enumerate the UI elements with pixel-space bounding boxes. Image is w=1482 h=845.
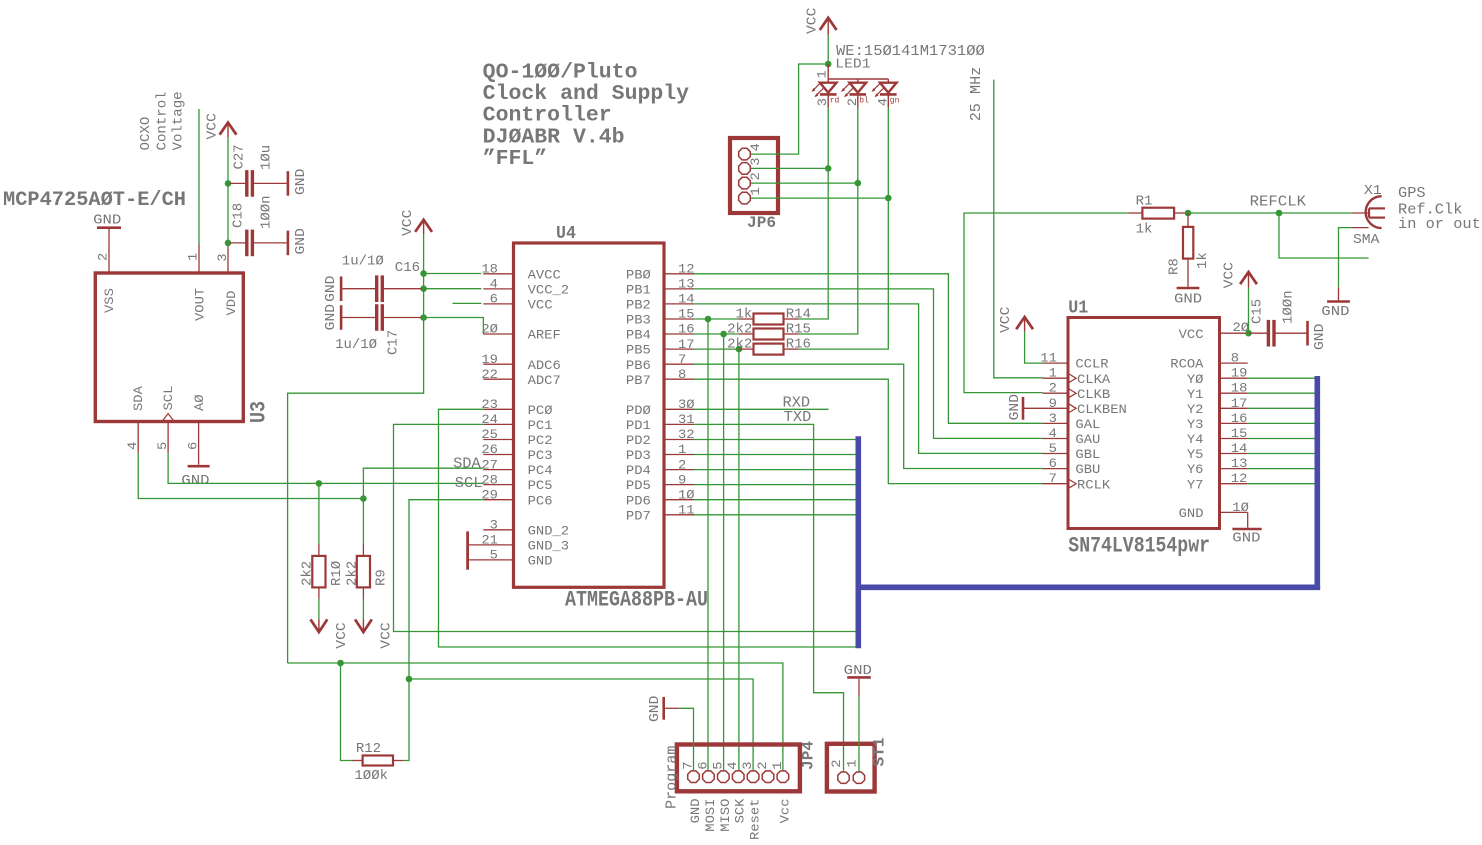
svg-text:YØ: YØ <box>1187 372 1204 387</box>
svg-text:R8: R8 <box>1167 258 1183 275</box>
ground GND at C27 <box>287 171 290 196</box>
svg-text:VOUT: VOUT <box>193 288 208 321</box>
svg-text:3: 3 <box>215 253 230 261</box>
svg-text:PBØ: PBØ <box>626 267 651 282</box>
svg-text:1k: 1k <box>1195 252 1211 269</box>
svg-text:28: 28 <box>481 472 498 487</box>
U4 pin 23 PC0 <box>483 408 513 410</box>
svg-text:VCC: VCC <box>1179 327 1204 342</box>
svg-text:26: 26 <box>481 442 498 457</box>
svg-text:PD5: PD5 <box>626 478 651 493</box>
power VCC above U3 <box>227 123 229 138</box>
U4 pin 24 PC1 <box>483 423 513 425</box>
svg-text:22: 22 <box>481 367 498 382</box>
junction VCC C17 <box>420 314 427 321</box>
U4 pin 10 PD6 <box>664 499 694 501</box>
junction LED blue JP6 pin2 <box>855 180 862 187</box>
svg-text:PC2: PC2 <box>528 433 553 448</box>
wire VCC to U4 AVCC <box>424 273 482 275</box>
svg-text:5: 5 <box>710 762 725 770</box>
wire U1 Y3 to bus <box>1248 422 1315 424</box>
connector JP4 outline <box>677 745 800 792</box>
wire REFCLK down to SMA shield row <box>1279 213 1369 258</box>
JP4 pin 6 pad <box>703 771 715 783</box>
svg-text:”FFL”: ”FFL” <box>483 148 548 171</box>
wire U1 Y4 to bus <box>1248 438 1315 440</box>
JP4 pin 5 pad <box>718 771 730 783</box>
LED arrows gn <box>873 83 881 91</box>
svg-text:8: 8 <box>1231 351 1239 366</box>
svg-text:X1: X1 <box>1364 183 1382 199</box>
svg-text:1ØØn: 1ØØn <box>1281 290 1297 324</box>
svg-text:ADC7: ADC7 <box>528 373 561 388</box>
wire SDA jog to U4 PC4 <box>363 468 483 498</box>
resistor R12 <box>363 756 393 766</box>
svg-text:3: 3 <box>748 158 763 166</box>
U4 pin 18 AVCC <box>483 273 513 275</box>
svg-text:1: 1 <box>678 442 686 457</box>
svg-text:2: 2 <box>96 253 111 261</box>
U1 pin 1 CLKA <box>1043 377 1069 379</box>
U4 pin 22 ADC7 <box>483 378 513 380</box>
LED diode pin 3 rd <box>827 79 829 83</box>
svg-text:11: 11 <box>678 503 695 518</box>
U4 pin 29 PC6 <box>483 499 513 501</box>
U4 pin 32 PD2 <box>664 439 694 441</box>
svg-text:6: 6 <box>695 762 710 770</box>
connector ST1 outline <box>827 744 875 792</box>
svg-text:14: 14 <box>1231 441 1248 456</box>
svg-text:R12: R12 <box>356 741 381 757</box>
ground GND at JP4 pin7 <box>662 697 665 720</box>
svg-text:15: 15 <box>1231 426 1248 441</box>
svg-text:1Øu: 1Øu <box>259 145 275 170</box>
wire JP4 GND pin <box>679 708 694 770</box>
ST1 pin 1 pad <box>853 772 864 783</box>
svg-text:1k: 1k <box>1136 222 1153 238</box>
svg-text:R1Ø: R1Ø <box>329 561 345 586</box>
junction LED red JP6 pin3 <box>825 165 832 172</box>
svg-text:1: 1 <box>748 187 763 195</box>
svg-text:GND: GND <box>1232 531 1260 547</box>
LED diode pin 2 bl <box>857 79 859 83</box>
wire JP6 pin2 to LED blue <box>751 182 858 184</box>
wire RXD from U4 PD0 <box>694 408 829 410</box>
svg-text:9: 9 <box>1049 396 1057 411</box>
svg-text:2: 2 <box>678 457 686 472</box>
svg-text:1Ø: 1Ø <box>678 487 695 502</box>
svg-text:SN74LV8154pwr: SN74LV8154pwr <box>1068 534 1210 559</box>
junction PB4 column <box>720 331 727 338</box>
svg-text:CCLR: CCLR <box>1075 357 1108 372</box>
svg-text:R1: R1 <box>1136 193 1153 209</box>
power VCC below R9 <box>362 619 364 632</box>
resistor R8 <box>1183 227 1193 259</box>
svg-text:GND: GND <box>688 798 703 823</box>
svg-text:16: 16 <box>1231 411 1248 426</box>
wire R15 to LED1 blue cathode <box>798 108 857 335</box>
wire PC1 to bus <box>394 424 856 631</box>
svg-text:1: 1 <box>815 70 830 78</box>
svg-text:VCC: VCC <box>400 210 416 236</box>
svg-text:GBU: GBU <box>1075 462 1100 477</box>
svg-text:gn: gn <box>890 97 900 106</box>
junction PB5 column <box>736 346 743 353</box>
svg-text:PB7: PB7 <box>626 373 651 388</box>
wire R14 column to JP4 <box>707 319 709 770</box>
wire VCC to U3 VDD <box>227 137 229 246</box>
IC U4 ATMEGA88PB outline <box>514 243 665 587</box>
svg-text:4: 4 <box>725 761 740 769</box>
ground GND at C17 <box>340 305 343 330</box>
svg-text:bl: bl <box>859 97 869 106</box>
clock mark on U3 SCL <box>162 414 174 422</box>
svg-text:4: 4 <box>1049 426 1057 441</box>
svg-text:1ØØn: 1ØØn <box>259 195 275 229</box>
resistor R16 <box>754 344 784 355</box>
svg-text:25: 25 <box>481 427 498 442</box>
ground GND below X1 <box>1338 287 1340 300</box>
svg-text:SCL: SCL <box>455 475 483 492</box>
svg-text:DJØABR V.4b: DJØABR V.4b <box>483 126 625 149</box>
svg-text:SDA: SDA <box>131 386 146 411</box>
U4 pin 8 PB7 <box>664 378 694 380</box>
svg-text:VCC: VCC <box>1222 262 1238 288</box>
wire SDA net U3 <box>138 453 363 498</box>
wire VCC to U4 VCC_2 <box>424 288 482 290</box>
svg-text:2Ø: 2Ø <box>481 322 498 337</box>
wire PB0 to U1 GAL <box>694 274 1043 424</box>
svg-text:GAU: GAU <box>1075 432 1100 447</box>
junction R1 R8 <box>1185 210 1192 217</box>
svg-text:5: 5 <box>1049 441 1057 456</box>
svg-text:SCK: SCK <box>733 798 748 823</box>
wire U4 PB4 to R15 <box>694 333 739 335</box>
svg-text:GND: GND <box>1321 304 1349 320</box>
wire R14 to LED1 red cathode <box>798 108 828 320</box>
wire R16 to LED1 green cathode <box>798 108 888 350</box>
wire VCC rail to JP4 Vcc <box>288 663 783 770</box>
svg-text:GND: GND <box>293 228 309 254</box>
wire U4 PB5 to R16 <box>694 348 739 350</box>
wire VOUT net <box>198 109 200 244</box>
svg-text:3: 3 <box>1049 411 1057 426</box>
svg-text:GND: GND <box>1174 292 1202 308</box>
JP6 pin 3 pad <box>739 163 751 175</box>
wire U1 Y1 to bus <box>1248 392 1315 394</box>
U4 pin 13 PB1 <box>664 288 694 290</box>
svg-text:OCXO: OCXO <box>138 117 154 151</box>
svg-text:24: 24 <box>481 412 498 427</box>
U3 pin 5 SCL <box>167 422 169 454</box>
svg-text:VCC: VCC <box>805 8 821 34</box>
svg-text:GBL: GBL <box>1075 447 1100 462</box>
svg-text:16: 16 <box>678 322 695 337</box>
bus horizontal bottom <box>856 584 1321 590</box>
svg-text:8: 8 <box>678 367 686 382</box>
svg-text:PB2: PB2 <box>626 298 651 313</box>
svg-text:VCC_2: VCC_2 <box>528 283 570 298</box>
ground GND at U3 A0 <box>188 465 210 468</box>
wire C17 to U4 AREF <box>424 318 484 335</box>
svg-text:MOSI: MOSI <box>703 799 718 832</box>
junction LED green JP6 pin1 <box>885 195 892 202</box>
wire PC0 to bus <box>439 409 856 647</box>
svg-text:4: 4 <box>748 143 763 151</box>
wire R9 to VCC arrow <box>362 599 364 619</box>
svg-text:19: 19 <box>481 352 498 367</box>
wire U4 PD2 to bus <box>694 439 856 441</box>
svg-text:C27: C27 <box>232 144 248 169</box>
U1 pin 9 CLKBEN <box>1043 407 1069 409</box>
svg-text:CLKA: CLKA <box>1077 372 1110 387</box>
wire JP6 pin3 to LED red <box>751 167 828 169</box>
U4 pin 7 PB6 <box>664 363 694 365</box>
wire R10 to VCC arrow <box>318 599 320 619</box>
ST1 pin 2 pad <box>838 772 849 783</box>
svg-text:4: 4 <box>875 98 890 106</box>
ground GND at U3 pin2 <box>97 226 121 229</box>
JP4 pin 2 pad <box>762 771 774 783</box>
svg-text:VCC: VCC <box>379 622 395 648</box>
svg-text:PC6: PC6 <box>528 493 553 508</box>
wire VCC column and rail <box>288 234 424 663</box>
svg-text:1u/1Ø: 1u/1Ø <box>335 337 377 353</box>
U1 pin 19 Y0 <box>1220 377 1248 379</box>
wire U4 PD6 to bus <box>694 499 856 501</box>
connector JP6 outline <box>730 138 778 213</box>
svg-text:2: 2 <box>748 172 763 180</box>
svg-text:3: 3 <box>490 518 498 533</box>
U4 pin 28 PC5 <box>483 484 513 486</box>
svg-text:GND: GND <box>647 696 663 722</box>
svg-text:PB3: PB3 <box>626 313 651 328</box>
svg-text:RCLK: RCLK <box>1077 477 1110 492</box>
svg-text:QO-1ØØ/Pluto: QO-1ØØ/Pluto <box>483 61 638 84</box>
wire TXD from U4 PD1 to ST1 <box>694 424 844 771</box>
junction C18 node <box>225 240 232 247</box>
svg-text:REFCLK: REFCLK <box>1250 193 1306 210</box>
U1 pin 17 Y2 <box>1220 407 1248 409</box>
resistor R9 <box>357 556 370 588</box>
svg-text:Y3: Y3 <box>1187 417 1204 432</box>
svg-text:C17: C17 <box>386 330 402 355</box>
svg-text:PD3: PD3 <box>626 448 651 463</box>
svg-text:PB6: PB6 <box>626 358 651 373</box>
power VCC at U1 CCLR <box>1024 317 1026 332</box>
svg-text:AREF: AREF <box>528 328 561 343</box>
junction SDA R9 <box>360 495 367 502</box>
svg-text:PB1: PB1 <box>626 283 651 298</box>
IC U1 SN74LV8154 outline <box>1068 318 1220 529</box>
svg-text:VCC: VCC <box>528 298 553 313</box>
svg-text:PCØ: PCØ <box>528 403 553 418</box>
svg-text:SMA: SMA <box>1353 232 1380 248</box>
junction C27 node <box>225 180 232 187</box>
svg-text:9: 9 <box>678 472 686 487</box>
svg-text:5: 5 <box>155 442 170 450</box>
capacitor C16 <box>375 275 378 302</box>
svg-text:18: 18 <box>481 262 498 277</box>
U1 pin 15 Y4 <box>1220 438 1248 440</box>
JP6 pin 1 pad <box>739 192 751 204</box>
LED arrows bl <box>842 83 850 91</box>
svg-text:GND: GND <box>1312 324 1328 350</box>
svg-text:6: 6 <box>186 442 201 450</box>
U4 pin 1 PD3 <box>664 454 694 456</box>
U4 pin 14 PB2 <box>664 303 694 305</box>
svg-text:AVCC: AVCC <box>528 267 561 282</box>
U3 pin 2 VSS <box>108 229 110 273</box>
wire GND to ST1 pin1 <box>858 697 860 772</box>
U4 pin 30 PD0 <box>664 408 694 410</box>
svg-text:GND: GND <box>323 276 339 302</box>
svg-text:GND_3: GND_3 <box>528 539 570 554</box>
ground GND below R8 <box>1177 287 1200 290</box>
U1 pin 4 GAU <box>1043 438 1069 440</box>
U1 pin 16 Y3 <box>1220 422 1248 424</box>
LED arrows rd <box>813 83 821 91</box>
wire PB7 to U1 RCLK <box>694 379 1043 483</box>
svg-text:R15: R15 <box>786 322 811 338</box>
U1 pin 8 RCOA <box>1220 362 1248 364</box>
svg-text:4: 4 <box>125 442 140 450</box>
svg-text:Y7: Y7 <box>1187 477 1204 492</box>
wire REFCLK node <box>1188 212 1353 214</box>
svg-text:ATMEGA88PB-AU: ATMEGA88PB-AU <box>565 588 708 613</box>
svg-text:Y6: Y6 <box>1187 462 1204 477</box>
svg-text:13: 13 <box>678 277 695 292</box>
junction VCC C16 <box>420 270 427 277</box>
U4 pin 12 PB0 <box>664 273 694 275</box>
IC U3 MCP4725 outline <box>95 273 243 422</box>
U1 pin 2 CLKB <box>1043 392 1069 394</box>
ground GND at U1 pin10 <box>1247 512 1249 527</box>
wire R15 column to JP4 <box>723 334 725 770</box>
svg-text:PD7: PD7 <box>626 508 651 523</box>
wire JP6 pin1 to LED green <box>751 197 889 199</box>
U1 pin 6 GBU <box>1043 468 1069 470</box>
svg-text:GND: GND <box>323 304 339 330</box>
svg-text:7: 7 <box>1049 471 1057 486</box>
svg-text:VCC: VCC <box>205 113 221 139</box>
svg-text:GND: GND <box>528 554 553 569</box>
svg-text:VDD: VDD <box>224 290 239 315</box>
U4 pin 31 PD1 <box>664 423 694 425</box>
wire reset rail to JP4 pin3 <box>409 679 753 770</box>
U3 pin 4 SDA <box>137 422 139 454</box>
svg-text:Y1: Y1 <box>1187 387 1204 402</box>
svg-text:23: 23 <box>481 397 498 412</box>
svg-text:15: 15 <box>678 307 695 322</box>
svg-text:1: 1 <box>844 759 859 767</box>
svg-text:PC1: PC1 <box>528 418 553 433</box>
JP6 pin 2 pad <box>739 177 751 189</box>
wire REFCLK to U1 CLKB <box>964 213 1128 393</box>
wire SCL net U3 to U4 <box>168 453 483 483</box>
U1 pin 18 Y1 <box>1220 392 1248 394</box>
U4 pin 16 PB4 <box>664 333 694 335</box>
svg-text:VCC: VCC <box>334 622 350 648</box>
U4 pin 15 PB3 <box>664 318 694 320</box>
capacitor C27 <box>245 170 248 197</box>
ground GND at U1 CLKBEN <box>1022 397 1025 420</box>
U4 pin 4 VCC_2 <box>483 288 513 290</box>
svg-text:32: 32 <box>678 427 695 442</box>
svg-text:PD2: PD2 <box>626 433 651 448</box>
svg-text:12: 12 <box>1231 471 1248 486</box>
svg-text:SCL: SCL <box>161 386 176 411</box>
U4 pin 5 GND <box>469 559 514 561</box>
JP4 pin 7 pad <box>688 771 700 783</box>
U4 pin 9 PD5 <box>664 484 694 486</box>
svg-text:JP4: JP4 <box>800 741 818 770</box>
svg-text:Voltage: Voltage <box>171 91 187 150</box>
svg-text:SDA: SDA <box>453 455 481 472</box>
svg-text:PC3: PC3 <box>528 448 553 463</box>
U3 pin 3 VDD <box>227 246 229 273</box>
svg-text:ADC6: ADC6 <box>528 358 561 373</box>
connector X1 SMA <box>1353 212 1370 214</box>
power VCC above C15 <box>1248 272 1250 288</box>
wire stub at U4 VCC pin6 <box>453 302 482 304</box>
ground bar at U4 GND pins <box>466 531 469 569</box>
wire PC6 reset to R12 <box>403 500 483 761</box>
svg-text:Vcc: Vcc <box>777 799 792 824</box>
svg-text:Y4: Y4 <box>1187 432 1204 447</box>
U4 pin 11 PD7 <box>664 514 694 516</box>
ground GND at C15 <box>1306 321 1309 346</box>
svg-text:4: 4 <box>490 277 498 292</box>
resistor R14 <box>754 314 784 325</box>
junction REFCLK <box>1276 210 1283 217</box>
wire U1 Y0 to bus <box>1248 377 1315 379</box>
svg-text:PC5: PC5 <box>528 478 553 493</box>
junction PB3 column <box>705 316 712 323</box>
svg-text:2: 2 <box>1049 381 1057 396</box>
svg-text:1k: 1k <box>736 307 753 323</box>
svg-text:6: 6 <box>1049 456 1057 471</box>
junction VCC rail R12 <box>337 660 344 667</box>
power VCC above C16 <box>423 220 425 234</box>
svg-text:2k2: 2k2 <box>727 322 752 338</box>
svg-text:3Ø: 3Ø <box>678 397 695 412</box>
svg-text:MISO: MISO <box>718 798 733 831</box>
svg-text:C16: C16 <box>395 260 420 276</box>
svg-text:Y2: Y2 <box>1187 402 1204 417</box>
power VCC above LED1 <box>827 18 829 35</box>
U1 pin 20 VCC <box>1220 332 1248 334</box>
svg-text:PDØ: PDØ <box>626 403 651 418</box>
JP6 pin 4 pad <box>739 148 751 160</box>
wire R12 to VCC rail <box>341 663 353 761</box>
svg-text:PB4: PB4 <box>626 328 651 343</box>
svg-text:6: 6 <box>490 292 498 307</box>
wire U4 PD4 to bus <box>694 469 856 471</box>
junction reset rail <box>406 676 413 683</box>
svg-text:2k2: 2k2 <box>300 561 316 586</box>
wire U1 VCC up to arrow <box>1248 288 1250 334</box>
svg-text:RCOA: RCOA <box>1170 357 1203 372</box>
LED diode pin 4 gn <box>887 79 889 83</box>
svg-text:3: 3 <box>740 762 755 770</box>
ground GND at C18 <box>287 231 290 256</box>
svg-text:1ØØk: 1ØØk <box>354 768 388 784</box>
wire U1 Y7 to bus <box>1248 483 1315 485</box>
wire U4 PD5 to bus <box>694 484 856 486</box>
U1 pin 10 GND <box>1220 511 1248 513</box>
svg-text:2k2: 2k2 <box>727 337 752 353</box>
